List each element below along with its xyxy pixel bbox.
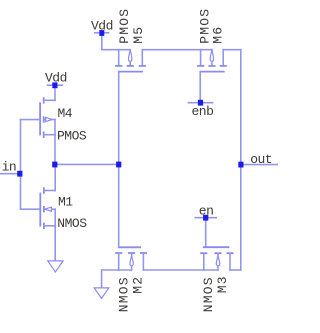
wire en pin to M3 gate <box>205 218 207 248</box>
pin out <box>241 152 278 167</box>
svg-text:M3: M3 <box>215 275 230 293</box>
pin square in <box>17 171 22 177</box>
transistor M5 (PMOS) <box>115 50 146 72</box>
pin Vdd (top supply) <box>91 18 113 33</box>
pin square enb <box>198 100 203 106</box>
junction node inverter output <box>52 162 57 168</box>
svg-text:M6: M6 <box>211 26 226 44</box>
svg-text:NMOS: NMOS <box>57 216 87 231</box>
pin in <box>0 160 20 175</box>
wire M1 drain to output node <box>54 164 56 190</box>
transistor M2 (NMOS) <box>115 247 147 270</box>
wire M1 source to ground <box>54 226 56 261</box>
svg-text:M1: M1 <box>58 194 73 209</box>
wire M5 gate feed to M2 gate <box>118 72 120 248</box>
transistor M6 (PMOS) <box>197 50 227 72</box>
svg-text:NMOS: NMOS <box>116 276 131 312</box>
pin Vdd (left supply for M4) <box>45 71 67 86</box>
svg-text:M4: M4 <box>58 106 73 121</box>
wire Vdd to top rail <box>102 33 130 50</box>
wire Vdd pin to M4 drain <box>54 85 56 100</box>
wire M4 source to output node <box>54 135 56 165</box>
ground (below M2) <box>94 288 109 299</box>
ground (below M1) <box>48 261 63 272</box>
svg-text:PMOS: PMOS <box>57 129 87 144</box>
pin square en <box>203 215 208 221</box>
junction node gate feed <box>116 162 121 168</box>
wire M6 drain to out rail <box>223 50 241 270</box>
wire input gate bus <box>21 120 41 210</box>
wire M2 drain to M3 source <box>143 269 218 271</box>
pin square Vdd (left) <box>52 82 57 88</box>
wire M5 drain to M6 source rail <box>142 49 212 51</box>
pin enb <box>188 103 213 119</box>
svg-text:enb: enb <box>192 104 214 119</box>
transistor M1 (NMOS) <box>40 187 55 229</box>
pin square Vdd (top) <box>99 30 104 36</box>
transistor M4 (PMOS) <box>40 97 55 138</box>
pin square out <box>238 162 243 168</box>
svg-text:M2: M2 <box>130 276 145 294</box>
svg-text:out: out <box>250 152 272 167</box>
transistor M3 (NMOS) <box>200 247 233 270</box>
svg-text:PMOS: PMOS <box>117 8 132 44</box>
pin en <box>195 204 216 219</box>
svg-text:M5: M5 <box>131 26 146 44</box>
svg-text:in: in <box>2 160 17 175</box>
wire M3 drain to out rail <box>230 269 241 271</box>
svg-text:NMOS: NMOS <box>201 276 216 312</box>
wire M2 source to ground <box>102 270 132 288</box>
wire inverter output to gate feed <box>55 163 119 165</box>
wire M6 gate to enb pin <box>199 72 201 103</box>
